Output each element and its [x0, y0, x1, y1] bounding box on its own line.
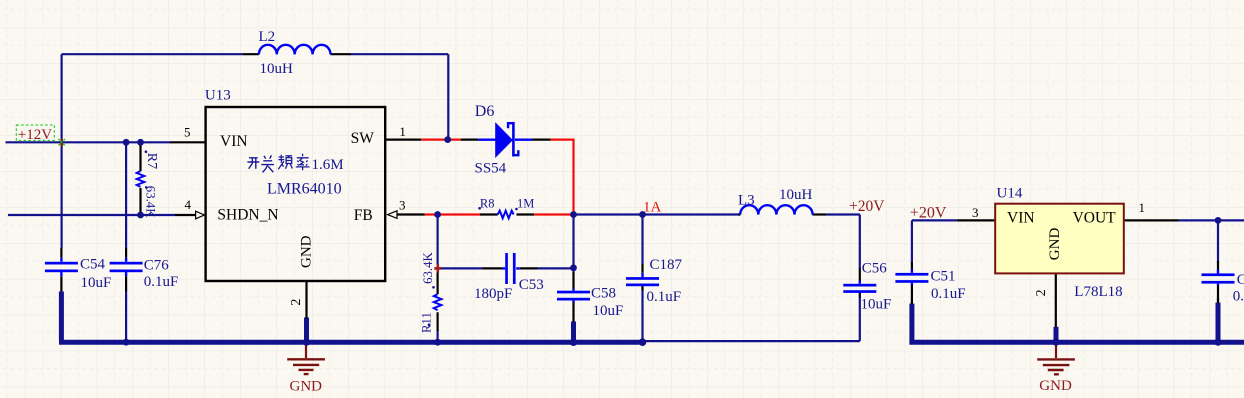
svg-text:VOUT: VOUT	[1073, 209, 1117, 226]
value 10uF of C58	[593, 303, 624, 319]
pin name GND of U14 rotated	[1047, 228, 1063, 261]
svg-text:U14: U14	[997, 185, 1023, 201]
wire C187 branch vertical	[641, 215, 643, 343]
wire +12V rail left	[6, 141, 171, 143]
hanzi guan of comment	[261, 155, 274, 172]
svg-text:0.1uF: 0.1uF	[647, 289, 682, 305]
pin end dot of R11 bottom	[428, 323, 431, 326]
label R7 rotated	[144, 153, 159, 169]
svg-text:C25: C25	[1237, 272, 1244, 288]
svg-text:GND: GND	[1039, 378, 1072, 394]
svg-text:LMR64010: LMR64010	[267, 180, 342, 197]
label C187	[650, 257, 683, 273]
svg-text:GND: GND	[298, 235, 314, 268]
label U14	[997, 185, 1023, 201]
junction at bus R11	[434, 339, 441, 346]
value 10uF of C54	[81, 275, 112, 291]
wire L3 to +20V corner and down to C56	[827, 215, 860, 342]
junction at FB node	[434, 211, 441, 218]
wire red R8 to node 1A	[534, 213, 573, 215]
wire red SW to D6 anode	[421, 139, 461, 141]
value 0.1uF of C187	[647, 289, 682, 305]
power port +20V at U14 input	[910, 204, 947, 221]
ground label GND at U14	[1039, 378, 1072, 394]
junction at bus U13 pin2	[303, 339, 310, 346]
svg-text:L3: L3	[738, 193, 755, 209]
wire ground return middle thin	[643, 340, 860, 342]
value SS54 of D6	[475, 161, 507, 177]
pin end dot of R7 bottom	[145, 186, 148, 189]
label R11 rotated	[419, 312, 433, 333]
input arrow on pin 3	[388, 211, 397, 219]
wire FB node down to R11	[437, 215, 439, 266]
junction at 1A left node	[570, 211, 577, 218]
no-ERC cross at R11 top node	[434, 264, 441, 272]
junction at R7 top	[137, 139, 144, 146]
wire C53 branch horizontal	[440, 267, 574, 269]
wire C76 branch vertical	[125, 142, 127, 342]
svg-text:L2: L2	[259, 29, 276, 45]
svg-text:SW: SW	[351, 130, 375, 147]
op-amp U13 body	[206, 107, 386, 281]
svg-text:R8: R8	[480, 197, 495, 211]
pin 1 lead of U14	[1124, 219, 1179, 221]
label L2	[259, 29, 276, 45]
comment LMR64010 of U13	[267, 180, 342, 197]
junction at bus C58	[570, 338, 578, 346]
wire black D6 anode stub	[461, 139, 478, 141]
pin name SW of U13	[351, 130, 375, 147]
pin 2 lead of U13	[305, 282, 307, 319]
wire node 1A to L3	[574, 213, 741, 215]
label D6	[475, 103, 495, 120]
svg-text:10uF: 10uF	[81, 275, 112, 291]
thick stub U13 pin2 to bus	[304, 318, 309, 343]
svg-text:GND: GND	[290, 379, 323, 395]
svg-text:1: 1	[1139, 200, 1146, 215]
pin number 5	[184, 124, 191, 139]
svg-text:10uH: 10uH	[260, 61, 294, 77]
label C76	[144, 257, 170, 273]
net label 1A	[643, 199, 662, 215]
wire VOUT to right edge	[1179, 219, 1244, 221]
pin name VIN of U14	[1007, 209, 1035, 226]
regulator U14 body	[995, 204, 1124, 274]
svg-text:1M: 1M	[517, 197, 534, 211]
resistor R7	[137, 142, 145, 215]
pin number 2 rotated	[289, 299, 304, 306]
hanzi lv of comment	[296, 154, 310, 170]
hanzi kai of comment	[247, 158, 259, 169]
svg-text:0.1uF: 0.1uF	[144, 274, 179, 290]
capacitor C76	[110, 248, 143, 292]
wire C58 branch vertical	[572, 215, 574, 273]
svg-text:63.4K: 63.4K	[144, 186, 158, 218]
svg-text:SS54: SS54	[475, 161, 507, 177]
junction at C76 top	[123, 139, 130, 146]
svg-text:R11: R11	[419, 312, 433, 333]
label C56	[862, 260, 888, 276]
capacitor C53	[482, 253, 537, 284]
capacitor C187	[626, 264, 659, 291]
wire red FB to R8	[425, 213, 480, 215]
wire R11 bottom to bus	[437, 330, 439, 342]
inductor L2	[242, 45, 351, 55]
value 63.4K of R11 rotated	[421, 252, 435, 284]
pin number 2 of U14 rotated	[1034, 289, 1049, 296]
pin name VIN of U13	[220, 133, 248, 150]
junction at bus C187	[639, 338, 647, 346]
diode D6	[478, 122, 532, 157]
pin 1 lead of U13	[386, 139, 422, 141]
value 180pF of C53	[474, 286, 512, 302]
pin end dot of R8 right	[515, 208, 518, 211]
label R8	[480, 197, 495, 211]
svg-text:5: 5	[184, 124, 191, 139]
capacitor C25 at right edge	[1202, 261, 1235, 303]
junction at C187 top	[639, 211, 646, 218]
pin name SHDN_N of U13	[217, 206, 278, 223]
pin 2 lead of U14	[1055, 273, 1057, 327]
pin end dot of R7 top	[145, 150, 148, 153]
capacitor C58	[557, 272, 590, 322]
ground label GND at U13	[290, 379, 323, 395]
label L3	[738, 193, 755, 209]
label C25 clipped at edge	[1237, 272, 1244, 288]
thick stub C51 to bus	[909, 304, 914, 341]
value 0.1uF of C51	[931, 286, 966, 302]
value L78L18 of U14	[1074, 284, 1122, 300]
pin name VOUT of U14	[1073, 209, 1117, 226]
svg-text:U13: U13	[205, 88, 231, 104]
pin 3 lead of U14	[957, 219, 996, 221]
svg-text:10uF: 10uF	[861, 297, 892, 313]
wire black D6 cathode stub	[533, 139, 551, 141]
wire +20V port corner to C51 and U14 pin3	[912, 220, 957, 304]
value 0.1uF clipped at edge	[1233, 288, 1244, 304]
pin number 3 of U14	[972, 205, 979, 220]
svg-text:C53: C53	[519, 277, 544, 293]
wire output cap branch vertical	[1217, 220, 1219, 304]
L3 right lead	[812, 213, 826, 215]
value 10uF of C56	[861, 297, 892, 313]
pin 3 lead of U13	[398, 213, 425, 215]
label C54	[80, 257, 106, 273]
wire top loop from +12V rail to L2 and down to SW node	[62, 54, 449, 248]
pin 5 lead of U13	[170, 141, 206, 143]
svg-text:0.1uF: 0.1uF	[931, 286, 966, 302]
svg-text:C76: C76	[144, 257, 170, 273]
junction at R7 bottom	[137, 212, 144, 219]
hanzi pin of comment	[278, 155, 292, 169]
capacitor C56	[843, 268, 876, 298]
junction at bus U14 pin2	[1052, 339, 1059, 346]
svg-text:R7: R7	[144, 153, 159, 169]
svg-text:4: 4	[185, 197, 192, 212]
pin name GND of U13 rotated	[298, 235, 314, 268]
power port +20V at L3 output	[849, 198, 885, 215]
svg-text:3: 3	[972, 205, 979, 220]
junction at C53 right node	[570, 264, 577, 271]
ground symbol at U13	[287, 345, 325, 375]
pin number 4	[185, 197, 192, 212]
svg-text:FB: FB	[354, 207, 373, 224]
resistor R11	[434, 273, 442, 332]
wire SHDN_N rail left	[8, 214, 175, 216]
thick ground bus right	[909, 340, 1244, 345]
pin end dot of R11 top	[432, 286, 435, 289]
pin 4 lead of U13	[175, 214, 196, 216]
svg-text:10uF: 10uF	[593, 303, 624, 319]
svg-text:+20V: +20V	[910, 204, 947, 221]
svg-text:SHDN_N: SHDN_N	[217, 206, 278, 223]
value 10uH of L2	[260, 61, 294, 77]
svg-text:C187: C187	[650, 257, 683, 273]
value 0.1uF of C76	[144, 274, 179, 290]
svg-text:0.1uF: 0.1uF	[1233, 288, 1244, 304]
svg-text:10uH: 10uH	[779, 187, 813, 203]
svg-text:180pF: 180pF	[474, 286, 512, 302]
svg-text:2: 2	[289, 299, 304, 306]
R8 left lead	[480, 213, 498, 215]
pin number 1	[399, 124, 406, 139]
svg-text:C51: C51	[931, 269, 956, 285]
svg-text:VIN: VIN	[220, 133, 248, 150]
junction at SW node	[444, 136, 451, 143]
svg-text:C58: C58	[591, 286, 616, 302]
value 63.4K of R7 rotated	[144, 186, 158, 218]
svg-text:VIN: VIN	[1007, 209, 1035, 226]
svg-text:1: 1	[399, 124, 406, 139]
junction at VOUT cap	[1215, 217, 1222, 224]
pin end dot of R8 left	[478, 207, 481, 210]
svg-text:1A: 1A	[643, 199, 662, 215]
wire red D6 cathode to FB node corner	[551, 139, 574, 215]
capacitor C51	[895, 262, 928, 304]
L3 left lead	[738, 213, 740, 215]
label C53	[519, 277, 544, 293]
R8 right lead	[517, 213, 535, 215]
svg-text:D6: D6	[475, 103, 495, 120]
thick stub C58 to bus	[571, 322, 576, 343]
svg-text:C56: C56	[862, 260, 888, 276]
input arrow on pin 4	[196, 211, 205, 219]
comment 1.6M switching frequency of U13	[312, 157, 344, 173]
svg-text:+20V: +20V	[849, 198, 885, 215]
pin name FB of U13	[354, 207, 373, 224]
svg-text:3: 3	[399, 197, 406, 212]
capacitor C54	[45, 248, 78, 292]
inductor L3	[740, 205, 812, 214]
svg-text:L78L18: L78L18	[1074, 284, 1122, 300]
power port +12V	[16, 125, 65, 147]
svg-text:2: 2	[1034, 289, 1049, 296]
ground symbol at U14	[1037, 344, 1075, 374]
thick ground bus left	[59, 292, 643, 343]
junction at bus output cap	[1214, 339, 1221, 346]
value 1M of R8	[517, 197, 534, 211]
svg-text:GND: GND	[1047, 228, 1063, 261]
label C51	[931, 269, 956, 285]
thick stub output cap to bus	[1216, 303, 1221, 341]
pin number 1 of U14	[1139, 200, 1146, 215]
pin number 3	[399, 197, 406, 212]
label U13	[205, 88, 231, 104]
svg-text:63.4K: 63.4K	[421, 252, 435, 284]
svg-text:C54: C54	[80, 257, 106, 273]
junction at bus C76	[123, 339, 130, 346]
svg-text:1.6M: 1.6M	[312, 157, 344, 173]
label C58	[591, 286, 616, 302]
thick stub U14 pin2 to bus	[1054, 327, 1059, 342]
resistor R8	[498, 211, 514, 219]
value 10uH of L3	[779, 187, 813, 203]
